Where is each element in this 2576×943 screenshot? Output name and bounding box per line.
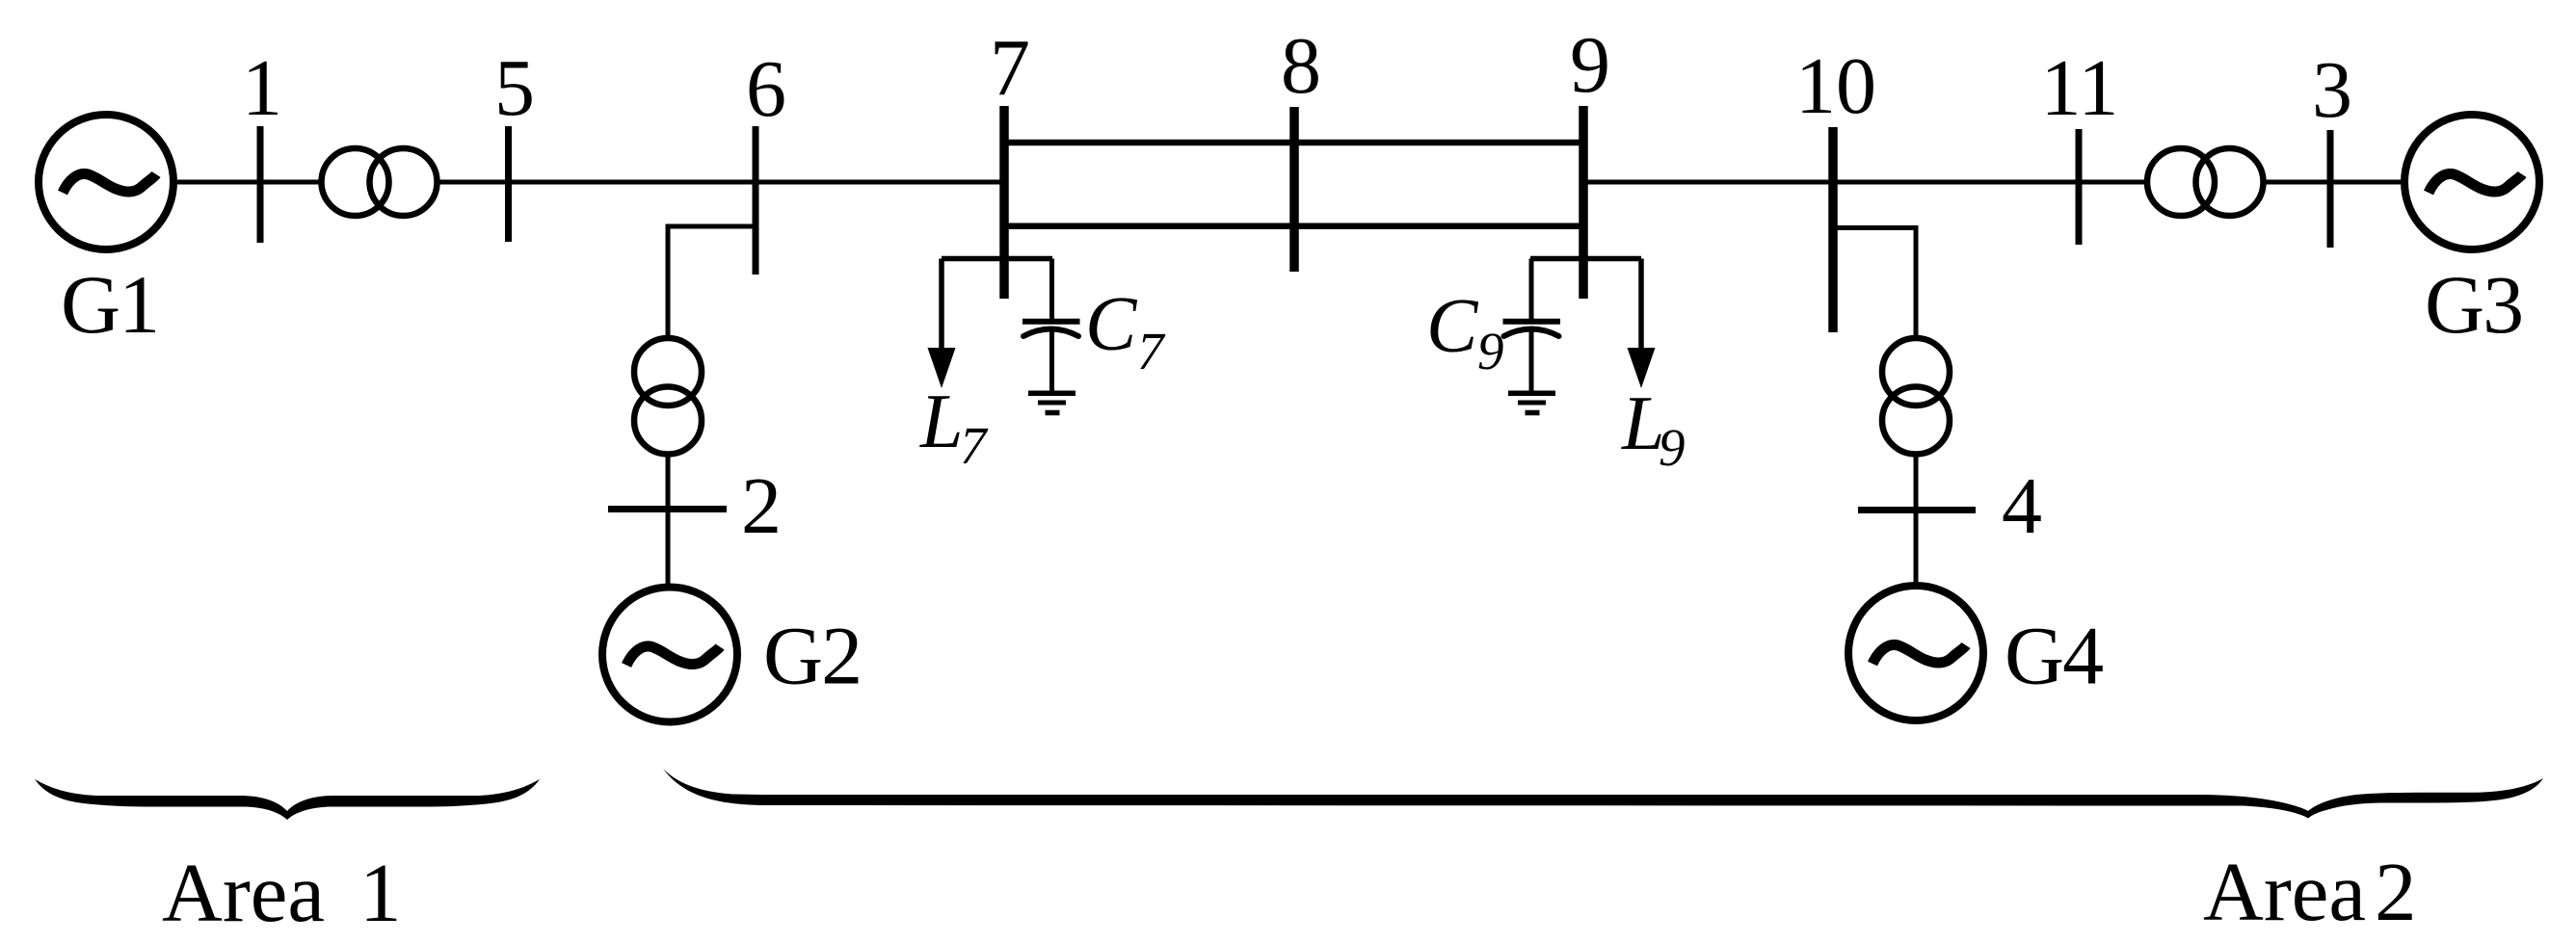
svg-text:9: 9: [1477, 322, 1504, 380]
wire bus 9 to T3: [1583, 180, 2147, 185]
bus 8: [1289, 107, 1299, 272]
svg-text:4: 4: [2002, 461, 2042, 551]
svg-text:9: 9: [1570, 20, 1610, 110]
load L9: [1628, 259, 1656, 389]
bus 3: [2327, 130, 2334, 248]
svg-text:7: 7: [990, 23, 1030, 113]
wire bus 9 load branch: [1530, 256, 1641, 262]
ground of C9: [1508, 393, 1555, 412]
svg-text:2: 2: [741, 461, 782, 551]
svg-text:1: 1: [359, 846, 402, 939]
wire T3 to G3: [2266, 180, 2403, 185]
bus 4: [1858, 507, 1976, 513]
wire bus 10 to T4: [1833, 228, 1916, 339]
svg-text:Area: Area: [2203, 845, 2366, 938]
svg-text:G2: G2: [763, 610, 861, 702]
wire T2 to G2: [666, 455, 671, 585]
bus 10: [1828, 127, 1838, 332]
svg-text:11: 11: [2041, 43, 2119, 133]
svg-text:5: 5: [494, 43, 535, 133]
bus 11: [2076, 129, 2083, 245]
svg-text:6: 6: [746, 44, 786, 134]
transformer T4: [1882, 338, 1950, 455]
transformer T1: [322, 148, 438, 216]
brace Area 2: [663, 769, 2543, 819]
generator G1: [39, 115, 173, 249]
ground of C7: [1028, 393, 1076, 412]
bus 5: [505, 126, 512, 242]
capacitor C9: [1503, 259, 1561, 392]
wire T1 to bus 7: [439, 180, 1004, 185]
capacitor C7: [1022, 259, 1080, 392]
transformer T2: [634, 338, 702, 455]
svg-text:10: 10: [1795, 41, 1876, 131]
svg-text:L: L: [919, 380, 964, 464]
transmission line 7-9 lower: [1004, 223, 1583, 230]
bus 1: [257, 126, 264, 243]
svg-text:G4: G4: [2005, 610, 2103, 702]
svg-text:G3: G3: [2425, 258, 2522, 351]
svg-text:C: C: [1085, 282, 1138, 367]
svg-text:9: 9: [1659, 418, 1686, 477]
svg-text:2: 2: [2375, 845, 2417, 938]
transformer T3: [2147, 148, 2264, 216]
load L7: [928, 259, 956, 389]
bus 6: [753, 126, 759, 275]
svg-text:3: 3: [2312, 45, 2352, 135]
generator G3: [2404, 115, 2539, 249]
bus 7: [999, 106, 1009, 299]
bus 2: [608, 506, 727, 512]
brace Area 1: [35, 779, 540, 820]
wire bus 6 to T2: [668, 226, 756, 338]
svg-text:7: 7: [960, 416, 989, 475]
svg-text:G1: G1: [61, 258, 158, 351]
wire bus 7 load branch: [942, 256, 1052, 262]
wire G1 to T1: [176, 180, 321, 185]
svg-text:8: 8: [1281, 21, 1321, 111]
wire T4 to G4: [1914, 455, 1919, 584]
svg-text:7: 7: [1137, 322, 1166, 380]
generator G2: [602, 588, 737, 722]
bus 9: [1579, 106, 1588, 299]
transmission line 7-9 upper: [1004, 140, 1583, 146]
svg-text:Area: Area: [162, 846, 325, 939]
svg-text:1: 1: [242, 43, 282, 133]
svg-text:C: C: [1426, 284, 1479, 369]
generator G4: [1848, 586, 1983, 720]
